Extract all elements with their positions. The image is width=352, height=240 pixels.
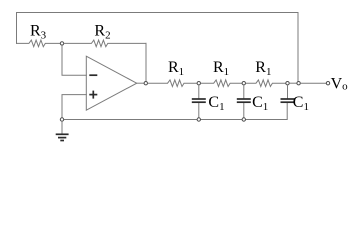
svg-text:C1: C1 — [252, 94, 268, 113]
resistor R2 — [64, 40, 146, 47]
terminal Vo — [326, 82, 329, 85]
svg-text:C1: C1 — [208, 94, 224, 113]
svg-text:R2: R2 — [94, 22, 110, 41]
node C (after second R1) — [242, 82, 245, 85]
wire op-amp tip to output node — [137, 82, 144, 84]
node D (after third R1) — [286, 82, 289, 85]
capacitor C1 (second) stem — [243, 85, 245, 98]
svg-text:R1: R1 — [168, 59, 184, 78]
resistor R1 (first) — [168, 80, 197, 87]
wire top feedback rail — [17, 13, 299, 82]
wire non-inverting input to ground node — [62, 95, 86, 118]
op-amp plus sign — [89, 94, 97, 96]
ground stem — [61, 122, 63, 134]
svg-text:R1: R1 — [255, 59, 271, 78]
capacitor C1 (first) plates — [192, 98, 206, 100]
svg-text:R3: R3 — [30, 22, 47, 41]
node G (rail under C1 second) — [242, 118, 245, 121]
ground bars — [56, 133, 69, 135]
node E (feedback junction) — [297, 82, 300, 85]
resistor R3 — [17, 40, 60, 47]
node F (rail under C1 first) — [197, 118, 200, 121]
op-amp minus sign — [89, 74, 97, 76]
resistor R1 (third) — [246, 80, 285, 87]
wire output to R1 ladder — [148, 82, 167, 84]
capacitor C1 (third) plates — [281, 98, 295, 100]
node B (after first R1) — [197, 82, 200, 85]
node ground — [60, 118, 63, 121]
capacitor C1 (third) stem — [287, 85, 289, 98]
wire bottom ground rail — [64, 103, 287, 119]
wire to output terminal — [301, 82, 326, 84]
node A (R3/R2 junction) — [60, 42, 63, 45]
resistor R1 (second) — [201, 80, 242, 87]
svg-text:R1: R1 — [213, 59, 229, 78]
node output of op-amp — [144, 82, 147, 85]
svg-text:Vo: Vo — [331, 75, 349, 92]
capacitor C1 (first) stem — [198, 85, 200, 98]
wire node D to feedback junction — [290, 82, 297, 84]
wire R2 to output node — [145, 43, 147, 81]
svg-text:C1: C1 — [293, 94, 309, 113]
wire node A to inverting input — [62, 46, 86, 76]
capacitor C1 (second) plates — [237, 98, 251, 100]
op-amp U1 — [86, 56, 136, 110]
